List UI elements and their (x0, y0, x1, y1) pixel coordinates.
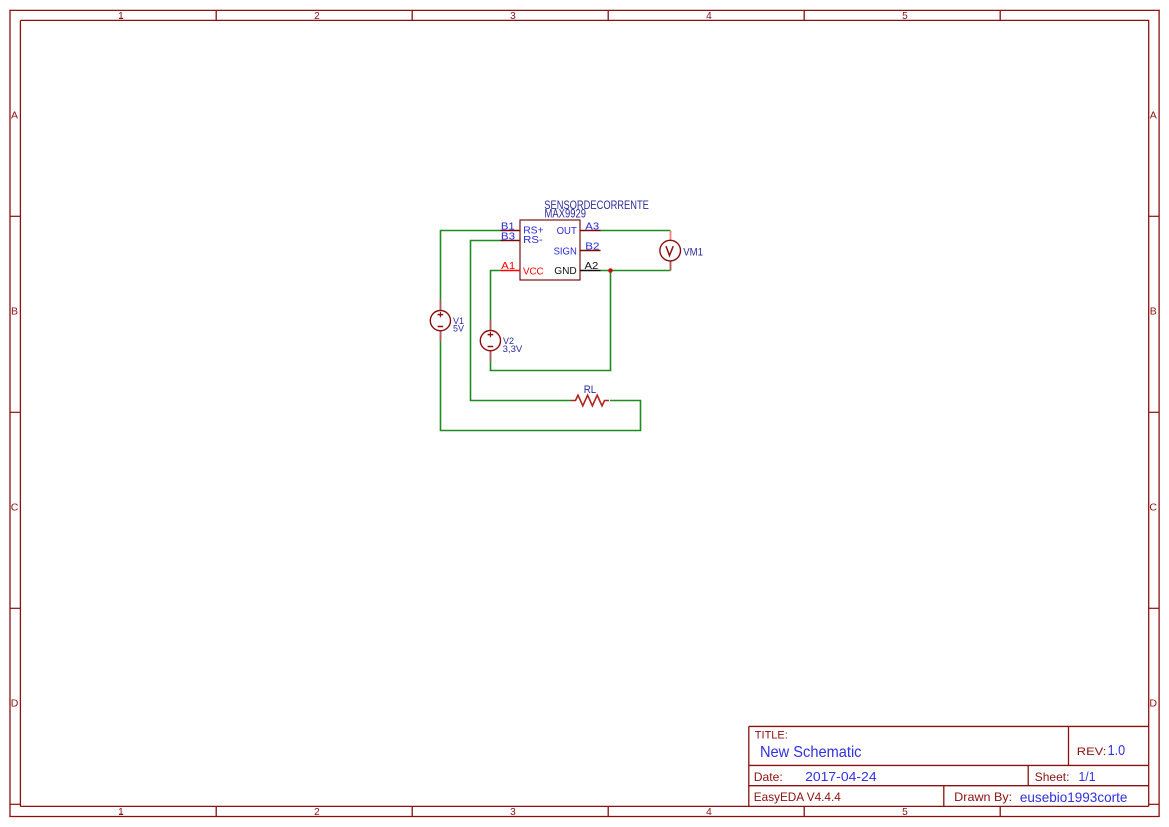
svg-text:B3: B3 (501, 232, 516, 243)
svg-text:VM1: VM1 (683, 246, 703, 258)
svg-text:RS-: RS- (523, 234, 543, 246)
svg-text:1.0: 1.0 (1108, 743, 1126, 759)
svg-text:RL: RL (584, 384, 596, 396)
svg-text:C: C (1149, 502, 1157, 514)
svg-text:C: C (11, 502, 19, 514)
svg-text:5: 5 (902, 11, 908, 22)
svg-text:MAX9929: MAX9929 (545, 209, 587, 221)
svg-text:1: 1 (118, 807, 124, 818)
svg-text:eusebio1993corte: eusebio1993corte (1020, 789, 1128, 805)
svg-text:1: 1 (118, 11, 124, 22)
svg-text:2017-04-24: 2017-04-24 (805, 770, 877, 784)
svg-text:TITLE:: TITLE: (755, 730, 788, 742)
svg-text:2: 2 (314, 11, 320, 22)
svg-text:2: 2 (314, 807, 320, 818)
svg-text:New Schematic: New Schematic (760, 744, 862, 761)
svg-text:1/1: 1/1 (1079, 770, 1096, 784)
svg-text:A2: A2 (585, 261, 599, 272)
svg-text:5V: 5V (453, 324, 465, 335)
svg-text:Drawn By:: Drawn By: (954, 790, 1012, 804)
svg-text:GND: GND (554, 265, 577, 277)
svg-text:REV:: REV: (1077, 746, 1107, 758)
svg-text:SIGN: SIGN (554, 246, 577, 258)
svg-text:B: B (1150, 306, 1157, 318)
svg-text:Sheet:: Sheet: (1035, 770, 1070, 784)
svg-text:4: 4 (706, 807, 712, 818)
svg-text:3,3V: 3,3V (503, 344, 523, 355)
svg-text:3: 3 (510, 11, 516, 22)
svg-text:A: A (1150, 110, 1157, 122)
svg-text:3: 3 (510, 807, 516, 818)
svg-text:A1: A1 (501, 261, 515, 272)
svg-text:A3: A3 (585, 221, 599, 232)
svg-text:VCC: VCC (523, 266, 544, 278)
svg-text:D: D (1149, 698, 1157, 710)
svg-text:5: 5 (902, 807, 908, 818)
svg-text:EasyEDA V4.4.4: EasyEDA V4.4.4 (754, 790, 841, 804)
svg-text:B2: B2 (585, 242, 600, 253)
svg-text:4: 4 (706, 11, 712, 22)
svg-text:A: A (11, 110, 18, 122)
svg-text:B: B (11, 306, 18, 318)
svg-text:D: D (11, 698, 19, 710)
svg-text:OUT: OUT (557, 225, 578, 237)
svg-text:Date:: Date: (754, 770, 783, 784)
